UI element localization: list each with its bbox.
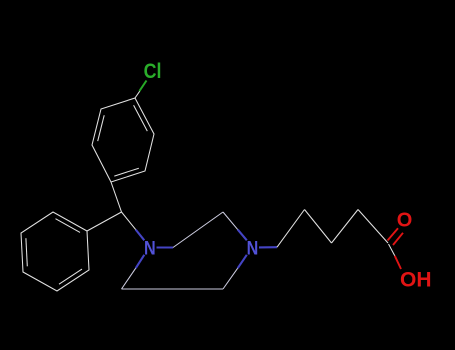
- svg-text:Cl: Cl: [144, 60, 162, 84]
- piperazine long bottom bond: [122, 288, 224, 290]
- N1 to ring C (short, blue): [157, 246, 174, 248]
- N1 to lower-left ring C (white half): [122, 268, 136, 289]
- piperazine C-C bond rising: [173, 212, 223, 248]
- svg-text:N: N: [247, 237, 259, 259]
- piperazine bottom C to N2 (blue half): [238, 255, 247, 268]
- N2 to chain C1 (blue): [259, 246, 277, 248]
- chain C2-C3: [305, 210, 332, 244]
- N1 to lower-left ring C (blue half): [136, 255, 145, 268]
- bond to Cl (green half): [139, 81, 146, 92]
- C-OH bond (red half): [395, 256, 401, 269]
- bond ring bottom to methine: [111, 182, 122, 212]
- chlorophenyl ring: [92, 98, 154, 182]
- chain C4 to carboxyl C: [358, 210, 388, 244]
- svg-text:O: O: [397, 209, 413, 231]
- C-OH bond (white half): [389, 244, 395, 256]
- svg-text:OH: OH: [400, 269, 432, 292]
- methine to N1 (blue half): [136, 230, 145, 241]
- chain C1-C2: [277, 210, 305, 248]
- methine to N1 (white half): [122, 212, 136, 230]
- piperazine bottom C to N2 (white half): [223, 268, 238, 289]
- C=O double bond (red): [388, 228, 399, 240]
- piperazine top C to N2 (white half): [223, 212, 238, 230]
- bond ring to Cl (white half): [135, 91, 140, 98]
- phenyl ring: [21, 212, 89, 291]
- chain C3-C4: [332, 210, 359, 244]
- svg-text:N: N: [144, 237, 156, 259]
- piperazine top C to N2 (blue half): [238, 230, 247, 241]
- methine to phenyl: [87, 212, 122, 231]
